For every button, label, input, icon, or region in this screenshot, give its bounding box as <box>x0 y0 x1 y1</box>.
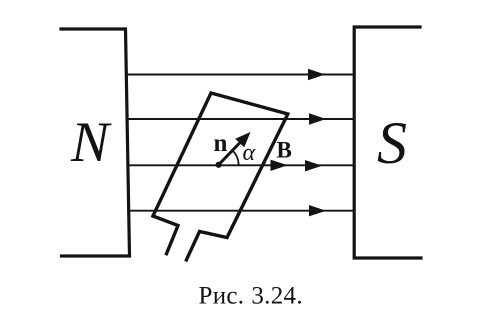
field line 3 arrowhead near pole <box>305 160 322 171</box>
origin dot (junction of n and B on field line 3) <box>216 162 222 168</box>
svg-text:S: S <box>377 110 407 176</box>
field line 3 arrowhead B (vector B) <box>271 160 288 171</box>
field line 4 <box>128 210 353 212</box>
magnet pole piece N (left) <box>61 29 130 256</box>
svg-text:B: B <box>277 138 292 163</box>
rectangular frame (tilted loop): left, top, right edges, bottom-right segment, lead 2 <box>153 93 288 260</box>
field line 3 <box>127 164 353 166</box>
field line 2 <box>127 118 353 120</box>
field line 4 arrowhead <box>309 205 326 216</box>
vector n shaft <box>219 142 241 165</box>
magnet pole piece S (right) <box>354 27 421 258</box>
svg-text:n: n <box>214 130 228 157</box>
field line 1 arrowhead <box>308 69 325 80</box>
svg-text:Рис. 3.24.: Рис. 3.24. <box>199 283 303 310</box>
angle arc alpha <box>232 150 238 165</box>
field line 2 arrowhead <box>309 113 326 124</box>
vector n arrowhead <box>235 132 250 147</box>
svg-text:N: N <box>70 111 112 174</box>
field line 1 <box>127 74 354 76</box>
frame bottom-left segment and lead 1 <box>153 216 178 254</box>
svg-text:α: α <box>243 140 256 166</box>
